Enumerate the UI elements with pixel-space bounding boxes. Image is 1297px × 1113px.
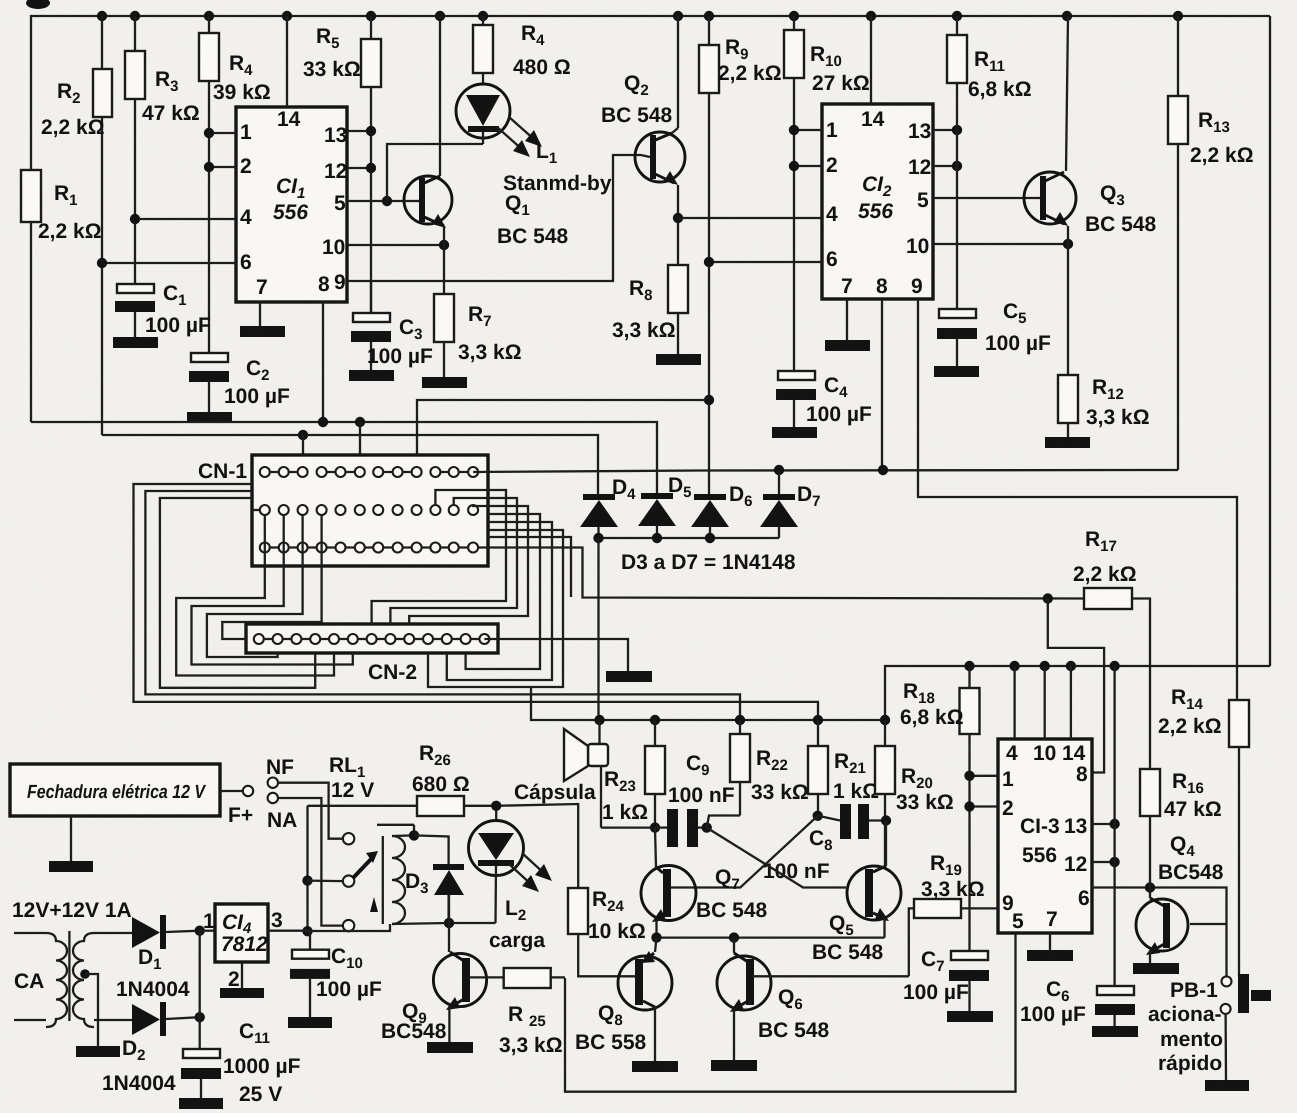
diode D7: [760, 470, 821, 538]
pin wire CI2 14 top: [870, 16, 872, 104]
CN-1 row3 pins: [260, 543, 488, 553]
resistor R14: [1158, 686, 1249, 976]
wire R1 column to D5: [31, 422, 657, 493]
relay arm: [353, 856, 374, 878]
ground under Q9: [427, 1042, 473, 1053]
diode D3: [405, 864, 464, 923]
pin wires CI1 left: [209, 132, 236, 134]
resistor R5: [303, 16, 381, 313]
wire nest N12: [447, 522, 552, 680]
wire nest N4: [176, 515, 334, 676]
IC CI2 556: [822, 104, 933, 299]
diode D4: [580, 476, 636, 538]
wire nest N11: [466, 514, 540, 669]
pin wire CI3 6 to Q4 base: [1092, 888, 1227, 977]
resistor R24: [496, 804, 646, 976]
transformer CA: [14, 931, 132, 1046]
transistor Q5: [812, 821, 901, 965]
resistor R7: [434, 245, 522, 377]
wire row3 to R17: [488, 548, 1084, 599]
wire coil top to R26 node: [377, 824, 414, 826]
ground under R8: [656, 354, 701, 365]
terminal NA: [267, 793, 297, 832]
resistor R21: [808, 720, 879, 816]
wire coil bottom rail: [392, 923, 496, 924]
resistor R16: [1140, 769, 1222, 888]
wire nest N8: [372, 490, 506, 624]
resistor R13: [1168, 16, 1254, 470]
wire NF to relay contact1: [278, 783, 343, 839]
ground under C11: [179, 1098, 223, 1109]
ground under C2: [187, 412, 232, 423]
pin wire CI2 9 to R14: [918, 299, 1237, 700]
node D3 anode: [444, 918, 454, 928]
node C9 right: [702, 822, 712, 832]
wire CN1 row1 c6 up: [359, 422, 361, 467]
ground middle: [606, 671, 652, 682]
pin wires CI3 top: [1013, 666, 1015, 739]
wire nest N2: [145, 491, 740, 720]
transistor Q7: [641, 828, 768, 938]
wire D4 column to bottom bus: [597, 538, 599, 720]
IC CI1 556: [236, 107, 347, 302]
connector CN-2: [246, 624, 498, 684]
capacitor C10: [290, 931, 382, 1017]
resistor R19: [909, 852, 998, 976]
capacitor C11: [181, 1020, 301, 1106]
wire CN2 pin13 to ground: [484, 639, 628, 671]
transistor Q3: [1024, 16, 1157, 375]
wire nest N13: [428, 530, 563, 687]
node rectifier output: [195, 926, 205, 936]
resistor R20: [875, 720, 954, 867]
resistor R3: [125, 16, 200, 284]
capacitor C3: [351, 281, 433, 370]
wire right margin supply: [1269, 16, 1271, 666]
node bus junctions: [97, 11, 107, 21]
capacitor C6: [1020, 666, 1135, 1026]
node diode anode bus: [599, 537, 780, 539]
resistor R11: [947, 16, 1032, 309]
resistor R1: [21, 170, 102, 422]
capacitor C2: [189, 353, 290, 412]
ground under C6: [1092, 1026, 1138, 1037]
ground under Fechadura: [49, 861, 93, 872]
node C8 left junction: [813, 811, 823, 821]
ground under Q4: [1133, 963, 1179, 974]
pin wires CI3 right 13 12: [1092, 823, 1115, 825]
pushbutton PB-1: [1148, 974, 1271, 1080]
transistor Q9: [381, 952, 504, 1043]
diode D2: [102, 1002, 200, 1095]
wire nest N9: [390, 498, 517, 624]
resistor R18: [900, 666, 980, 951]
capacitor C9: [655, 752, 735, 847]
wire nest N1: [134, 484, 819, 720]
wire nest N5: [192, 515, 353, 665]
wire R17 right to R16: [1132, 599, 1150, 770]
wire CI1 pin9 to Q2 base: [347, 155, 641, 281]
capacitor C4: [776, 371, 872, 427]
wire R26 node down to 12V rail: [306, 806, 308, 931]
CN-2 pins: [254, 634, 490, 644]
wire cross diagonal Q7 base to C8: [671, 816, 818, 888]
pin wires CI3 left: [970, 775, 999, 777]
ground under pin7 CI1: [240, 326, 285, 337]
node R26 L2 junction: [491, 801, 501, 811]
pin wire CI1 7 to ground: [259, 302, 261, 326]
capacitor C8: [763, 804, 886, 883]
transistor Q6: [717, 938, 909, 1060]
resistor R23: [602, 720, 665, 828]
CN-1 row2 pins: [252, 490, 488, 515]
wire nest N6: [207, 515, 303, 657]
ground under C10: [288, 1017, 332, 1028]
wire CN1 row1 c12 to R13 bottom: [473, 470, 1178, 472]
diode D6: [691, 483, 753, 538]
resistor R25: [499, 968, 565, 1057]
wire CN1 row1 c3 up: [302, 435, 304, 467]
ground under R7: [422, 377, 467, 388]
wire nest N3: [160, 498, 315, 688]
relay coil: [392, 836, 405, 924]
pin wire CI3 5 bottom rail: [565, 933, 1016, 1092]
resistor R22: [730, 720, 809, 816]
resistor R12: [1058, 375, 1150, 437]
resistor R9: [699, 16, 782, 495]
pin wires CI1 right: [347, 130, 371, 132]
wire R2 column to D4: [102, 435, 598, 495]
CN-1 row1 pins: [260, 467, 478, 477]
capacitor C5: [937, 300, 1051, 366]
speaker capsule: [514, 720, 655, 828]
IC CI4 7812: [200, 904, 308, 991]
wire NA to relay contact3: [278, 798, 343, 926]
wire CI3 supply bus: [885, 666, 1270, 720]
wire CN1 row1 c9 to R9 column: [417, 400, 709, 467]
resistor R8: [612, 213, 688, 354]
resistor R10: [784, 16, 870, 371]
transistor Q4: [1136, 833, 1224, 963]
relay core: [382, 836, 384, 924]
IC CI-3 556: [998, 739, 1092, 933]
capacitor C7: [903, 948, 989, 1011]
wire 12V rail to Q9 collector: [308, 924, 391, 931]
block Fechadura eletrica: [10, 764, 220, 861]
diode D5: [638, 474, 692, 538]
terminal F+: [220, 786, 253, 827]
resistor R2: [41, 16, 112, 435]
pin wire CI1 14 top: [286, 16, 288, 107]
pin wire CI3 7 ground: [1049, 933, 1051, 950]
ground under C7: [947, 1011, 993, 1022]
wire L1 cathode to pin5 node: [387, 144, 483, 201]
node C8 right R20 Q5 collector: [881, 815, 891, 825]
capacitor C1: [115, 282, 211, 337]
resistor R4 39k: [199, 16, 271, 353]
ground transformer centertap: [76, 1046, 120, 1057]
ground under PB-1: [1205, 1080, 1249, 1091]
pin wire CI2 7 ground: [846, 299, 848, 340]
wire oscillator supply bus: [531, 688, 885, 720]
resistor R4 480: [473, 16, 571, 84]
pin wire CI1 8 down: [322, 302, 324, 422]
ground under C5: [934, 366, 979, 377]
ground under C1: [113, 337, 158, 348]
transistor Q1: [404, 16, 569, 248]
terminal NF: [266, 756, 294, 788]
wire top supply bus: [31, 16, 1270, 170]
transistor Q8: [575, 938, 672, 1061]
pin wire CI2 8 down: [881, 299, 883, 470]
pin wires CI2 right: [933, 129, 957, 131]
transistor Q2: [601, 16, 685, 265]
pin wires CI2 left: [794, 129, 822, 131]
relay contact circles: [343, 833, 354, 844]
node R23 C9 Q7 junction: [650, 822, 660, 832]
wire nest N14: [488, 537, 571, 597]
ground under R12: [1045, 437, 1090, 448]
ground under C3: [349, 370, 394, 381]
resistor R17: [1073, 528, 1137, 609]
connector CN-1: [198, 455, 488, 566]
wire cross diagonal C9 to Q5 base: [707, 828, 846, 888]
wire coil node to D3 top: [414, 835, 449, 864]
wire nest N7: [222, 515, 321, 639]
ground CI4 pin2: [220, 988, 264, 998]
LED L2: [469, 821, 553, 953]
ground under Q6: [711, 1060, 757, 1071]
LED L1: [456, 84, 612, 195]
resistor R26: [308, 742, 497, 820]
wire nest N10: [409, 506, 528, 624]
wire C9 to R22: [707, 816, 740, 828]
diode D1: [116, 915, 200, 1001]
ground under Q8: [632, 1061, 678, 1072]
ground under C4: [772, 427, 817, 438]
wire emitter rail Q7 Q5: [657, 936, 885, 938]
corner mark: [26, 0, 50, 9]
wire R17 left down to CI3 pin8: [1048, 599, 1104, 773]
